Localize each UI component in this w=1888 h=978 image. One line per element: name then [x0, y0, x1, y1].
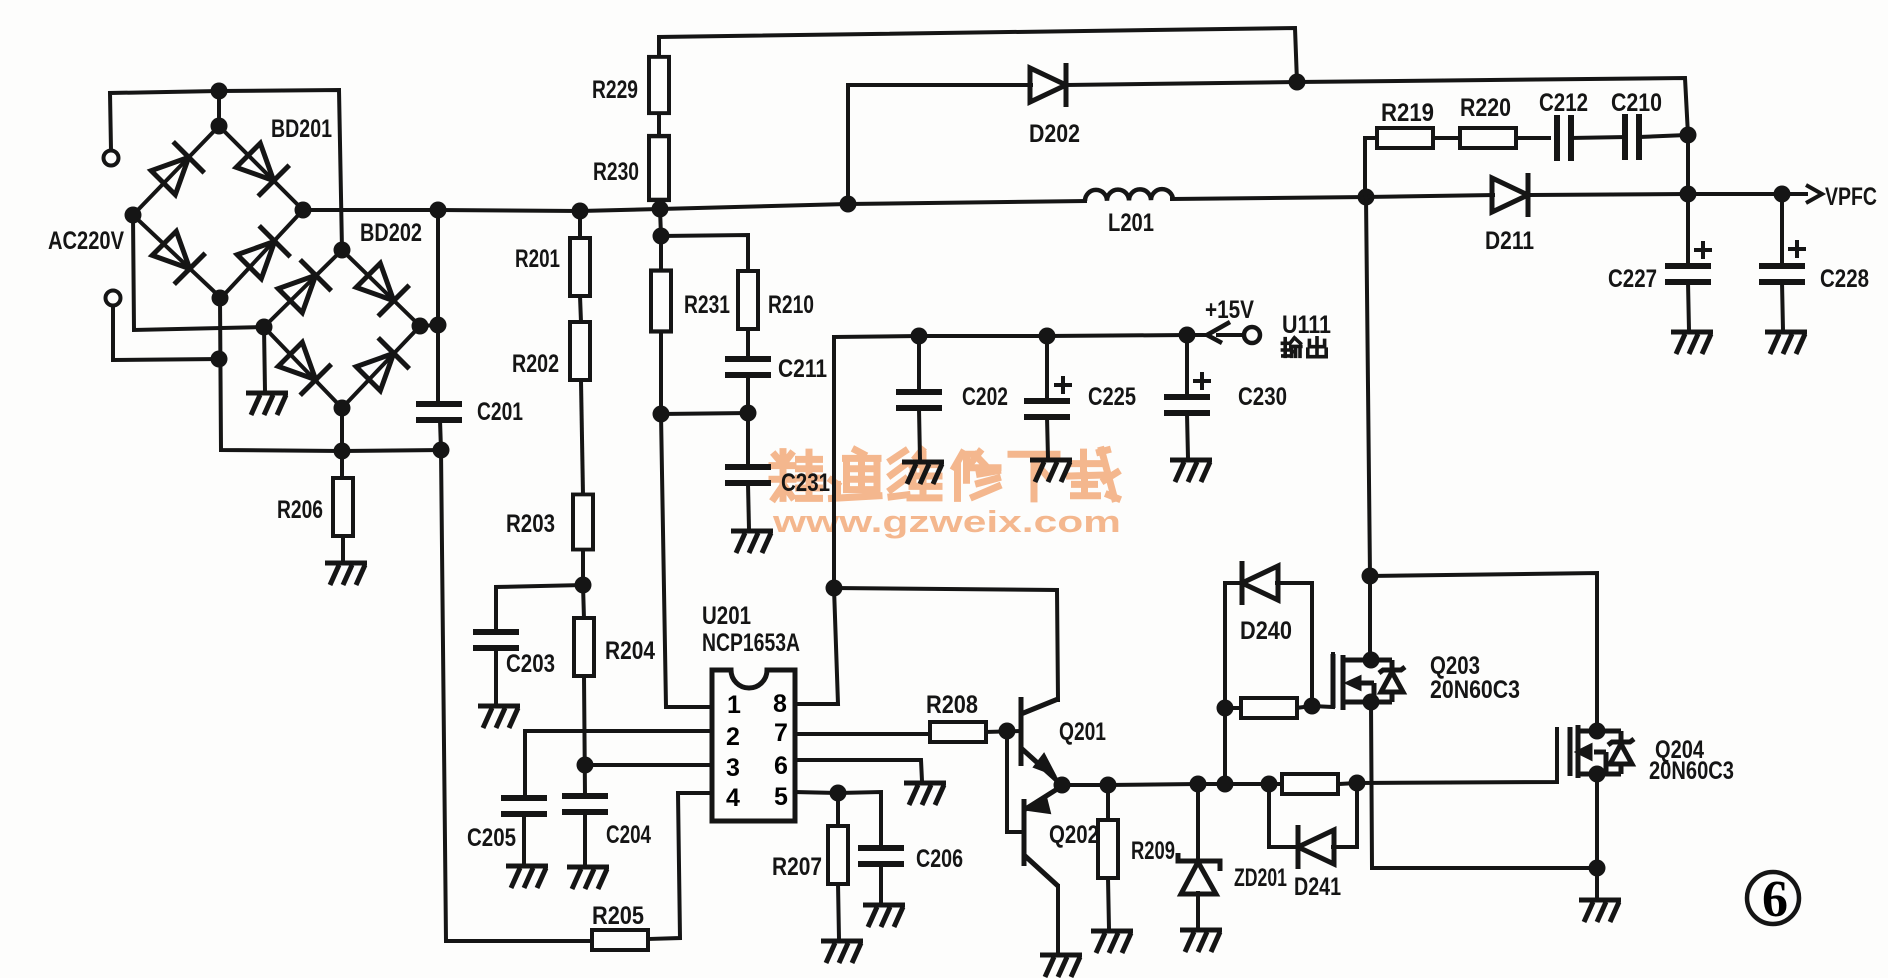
- polarity mark C225: [1054, 376, 1072, 394]
- wire corner node down to main line: [1686, 135, 1690, 194]
- node junction (438,325): [430, 317, 447, 334]
- svg-text:6: 6: [774, 752, 788, 780]
- wire R231/C211 junction link: [661, 413, 748, 414]
- wire +15V arrow to terminal: [1218, 333, 1243, 337]
- node junction (303,210): [295, 202, 312, 219]
- wire emitters node to gate bus: [1062, 784, 1281, 785]
- resistor R204: [574, 618, 594, 676]
- wire +15V node to Q201 collector: [834, 588, 1058, 700]
- label 输出: [1282, 338, 1326, 357]
- svg-text:D241: D241: [1294, 873, 1341, 901]
- wire +15V corner down to pin8 node: [832, 337, 836, 588]
- capacitor C228: [1759, 266, 1805, 282]
- AC input terminal 1: [104, 151, 119, 166]
- svg-text:L201: L201: [1108, 209, 1154, 237]
- capacitor C231: [725, 467, 771, 483]
- wire pin 6 to ground: [795, 760, 922, 781]
- node junction (1371,660): [1363, 652, 1380, 669]
- node junction (919,336): [911, 328, 928, 345]
- node junction (342,250): [334, 242, 351, 259]
- wire R229 top to D202 line: [659, 28, 1297, 82]
- svg-text:6: 6: [1762, 871, 1788, 928]
- resistor R207: [828, 826, 848, 884]
- wire R202-R203 link: [581, 381, 583, 495]
- wire AC2 to BD201 bottom: [113, 306, 219, 360]
- wire Q203 drain link to Q204 drain: [1370, 573, 1597, 731]
- polarity mark C230: [1193, 372, 1211, 390]
- svg-text:C231: C231: [781, 469, 830, 497]
- resistor gate Q203: [1241, 698, 1297, 718]
- node junction (438,210): [430, 202, 447, 219]
- wire long vertical to Q203 drain: [1366, 197, 1370, 659]
- resistor R220: [1460, 128, 1516, 148]
- wire C212-C210 link: [1571, 137, 1625, 138]
- wire C231 to ground: [748, 484, 749, 529]
- capacitor C204: [562, 796, 608, 812]
- ground ZD201: [1180, 930, 1222, 952]
- capacitor C203: [473, 632, 519, 648]
- svg-text:20N60C3: 20N60C3: [1430, 676, 1520, 704]
- wire pin 8 to +15V node: [795, 588, 838, 704]
- transistor Q202: [1024, 786, 1062, 886]
- wire R231 junction to U201 pin 1: [661, 414, 712, 707]
- wire C211 to junction: [746, 376, 750, 413]
- ground pin6: [904, 783, 946, 805]
- watermark: [772, 450, 1121, 539]
- resistor R203: [573, 494, 593, 549]
- svg-text:Q201: Q201: [1059, 718, 1106, 746]
- wire R203 to junction: [581, 550, 585, 585]
- svg-text:R220: R220: [1460, 94, 1511, 122]
- wire R231 top lead: [659, 236, 663, 271]
- node junction (1297,82): [1289, 74, 1306, 91]
- svg-text:www.gzweix.com: www.gzweix.com: [772, 504, 1121, 539]
- node junction (219,91): [211, 83, 228, 100]
- svg-text:C201: C201: [477, 398, 523, 426]
- wire R229-R230 link: [657, 112, 661, 136]
- node junction (1187,335): [1179, 327, 1196, 344]
- svg-text:R206: R206: [277, 496, 323, 524]
- svg-text:1: 1: [727, 691, 741, 719]
- wire bus L201 to output node: [1172, 197, 1366, 199]
- page number circle 6: [1747, 872, 1799, 924]
- svg-text:C211: C211: [778, 355, 827, 383]
- node junction (1366,197): [1358, 189, 1375, 206]
- node junction (220,298): [212, 290, 229, 307]
- node junction (1269,784): [1261, 776, 1278, 793]
- ground C204: [567, 867, 609, 889]
- wire R220-C212 link: [1516, 136, 1549, 140]
- node junction (219,359): [211, 351, 228, 368]
- wire AC1 to BD201 top and BD202 top: [110, 90, 342, 250]
- svg-text:C204: C204: [606, 821, 651, 849]
- wire R219 branch down to main line: [1363, 138, 1367, 197]
- wire gate resistor Q203 leads: [1225, 706, 1240, 710]
- svg-text:R205: R205: [592, 902, 644, 930]
- wire pin 5 junction: [795, 792, 881, 848]
- zener diode ZD201: [1178, 853, 1220, 894]
- svg-text:R210: R210: [768, 291, 814, 319]
- wire junction to R204: [583, 585, 584, 619]
- wire C202 top lead: [917, 336, 921, 391]
- wire R201 top lead: [578, 211, 582, 238]
- node dots upper-left: [125, 83, 450, 460]
- wire C230 top lead: [1185, 335, 1189, 396]
- wire C203 to ground: [494, 648, 498, 704]
- resistor R201: [570, 238, 590, 296]
- capacitor C210: [1625, 114, 1639, 160]
- node junction (1370,576): [1362, 568, 1379, 585]
- svg-text:7: 7: [774, 719, 788, 747]
- wire R210 to C211: [746, 330, 750, 358]
- svg-text:C230: C230: [1238, 383, 1287, 411]
- node junction (1225,784): [1217, 776, 1234, 793]
- wire Q204 source down: [1595, 774, 1599, 898]
- node junction (1688,194): [1680, 186, 1697, 203]
- ground C230: [1170, 460, 1212, 482]
- svg-text:BD201: BD201: [271, 115, 332, 143]
- ground C206: [863, 905, 905, 927]
- svg-text:D211: D211: [1485, 227, 1534, 255]
- svg-text:C212: C212: [1539, 89, 1588, 117]
- wire R230 to bus: [659, 201, 660, 209]
- ground C205: [506, 866, 548, 888]
- wire C204 to ground: [583, 813, 587, 865]
- wire R201-R202 link: [580, 296, 581, 322]
- wire C228 to ground: [1782, 282, 1783, 330]
- svg-text:Q202: Q202: [1049, 821, 1099, 849]
- svg-text:C203: C203: [506, 650, 555, 678]
- node junction (1357,783): [1349, 775, 1366, 792]
- node junction (342,408): [334, 400, 351, 417]
- wire R209 upper lead: [1106, 785, 1110, 820]
- wire D202 branch: [848, 85, 1031, 204]
- svg-text:R207: R207: [772, 853, 822, 881]
- node junction (585,765): [577, 757, 594, 774]
- svg-text:20N60C3: 20N60C3: [1649, 757, 1734, 785]
- VPFC output arrow: [1806, 185, 1822, 203]
- op-amp U201 NCP1653A body: [712, 670, 795, 821]
- wire C203 branch: [496, 585, 583, 632]
- wire R231 lower lead: [659, 332, 663, 414]
- node junction (1688,135): [1680, 127, 1697, 144]
- wire ZD201 upper lead: [1196, 784, 1200, 858]
- node junction (1225,708): [1217, 700, 1234, 717]
- wire C206 to ground: [879, 864, 883, 903]
- transistor Q203: [1333, 654, 1405, 710]
- svg-text:R219: R219: [1381, 99, 1434, 127]
- svg-text:R230: R230: [593, 158, 639, 186]
- svg-text:R204: R204: [605, 637, 655, 665]
- wire C225 to ground: [1047, 417, 1048, 458]
- diode D240: [1242, 561, 1278, 605]
- ground C228: [1765, 332, 1807, 354]
- wire pin 3 to R204 junction: [585, 763, 712, 767]
- wire C210 to corner node: [1639, 135, 1688, 137]
- capacitor C230: [1164, 397, 1210, 413]
- wire BD201 bottom vertical and bottom rail: [220, 298, 441, 451]
- wire bus to R231/R210: [660, 209, 748, 271]
- wire BD202 bottom stub: [340, 408, 344, 451]
- AC input terminal 2: [106, 291, 121, 306]
- wire ZD201 to ground: [1196, 893, 1200, 928]
- node junction (1062,785): [1054, 777, 1071, 794]
- node junction (1597,731): [1589, 723, 1606, 740]
- wire pin 4 to R205: [648, 793, 712, 939]
- svg-text:NCP1653A: NCP1653A: [702, 629, 800, 657]
- wire BD201 left to BD202 left: [133, 215, 264, 330]
- svg-text:R201: R201: [515, 245, 560, 273]
- polarity mark C228: [1788, 240, 1806, 258]
- ground BD202 left: [264, 327, 265, 391]
- node dots lower right: [1100, 568, 1606, 877]
- wire Q203 gate lead: [1312, 654, 1333, 707]
- diode D241: [1298, 825, 1334, 869]
- transistor Q201: [1021, 697, 1062, 785]
- svg-text:3: 3: [726, 754, 740, 782]
- wire pin 7 to R208: [795, 732, 931, 736]
- svg-text:BD202: BD202: [360, 219, 422, 247]
- node junction (1371,702): [1363, 694, 1380, 711]
- capacitor C211: [725, 359, 771, 375]
- ground C231: [731, 531, 773, 553]
- svg-text:C206: C206: [916, 845, 963, 873]
- wire C227 to ground: [1688, 282, 1689, 330]
- wire +15V rail: [834, 335, 1205, 337]
- svg-text:R209: R209: [1131, 837, 1175, 865]
- wire junction to C231: [746, 413, 750, 466]
- svg-text:R208: R208: [926, 691, 978, 719]
- svg-text:C227: C227: [1608, 265, 1657, 293]
- inductor L201: [1085, 189, 1173, 201]
- resistor R229: [649, 57, 669, 113]
- svg-text:R202: R202: [512, 350, 559, 378]
- +15V arrow: [1207, 322, 1230, 343]
- svg-text:C225: C225: [1088, 383, 1136, 411]
- bridge rectifier BD202: [264, 250, 420, 408]
- wire main line through D211: [1366, 195, 1493, 197]
- node junction (1108,785): [1100, 777, 1117, 794]
- node junction (1782,194): [1774, 186, 1791, 203]
- svg-text:R203: R203: [506, 510, 555, 538]
- node junction (264,327): [256, 319, 273, 336]
- node dots right: [911, 127, 1791, 345]
- wire D202 cathode to top right: [1067, 78, 1688, 135]
- wire R204 to C204/pin3 junction: [584, 676, 585, 795]
- wire R219-R220 link: [1432, 136, 1460, 140]
- resistor gate Q204: [1282, 774, 1338, 794]
- wire gate bus to Q204 gate: [1339, 729, 1557, 784]
- svg-text:4: 4: [726, 784, 740, 812]
- wire R209 to ground: [1108, 878, 1109, 929]
- node junction (342,451): [334, 443, 351, 460]
- resistor R230: [649, 136, 669, 200]
- wire BD201 top stub: [217, 91, 221, 126]
- capacitor C206: [858, 848, 904, 864]
- node dots driver: [826, 580, 1071, 802]
- svg-text:R231: R231: [684, 291, 730, 319]
- svg-text:U111: U111: [1282, 311, 1331, 339]
- bridge rectifier BD201: [133, 126, 303, 298]
- svg-text:2: 2: [726, 723, 740, 751]
- svg-text:C228: C228: [1820, 265, 1869, 293]
- node junction (848,204): [840, 196, 857, 213]
- resistor R219: [1377, 128, 1433, 148]
- wire R207 to ground: [838, 883, 839, 939]
- node junction (661,414): [653, 406, 670, 423]
- node junction (1597,868): [1589, 860, 1606, 877]
- svg-text:AC220V: AC220V: [48, 227, 124, 255]
- capacitor C201: [416, 404, 462, 420]
- ground Q204 source: [1579, 900, 1621, 922]
- node junction (1047,336): [1039, 328, 1056, 345]
- wire D240 loop: [1225, 583, 1243, 784]
- wire R207 upper lead: [836, 793, 840, 827]
- polarity mark C227: [1694, 241, 1712, 259]
- node junction (660,209): [652, 201, 669, 218]
- node junction (420,326): [412, 318, 429, 335]
- ground R207: [821, 941, 863, 963]
- resistor R209: [1098, 820, 1118, 878]
- svg-text:C210: C210: [1611, 89, 1662, 117]
- svg-text:+15V: +15V: [1205, 296, 1254, 324]
- capacitor C205: [501, 798, 547, 814]
- resistor R206: [340, 451, 344, 479]
- svg-text:VPFC: VPFC: [1825, 183, 1877, 211]
- svg-text:R229: R229: [592, 76, 638, 104]
- ground C202: [902, 462, 944, 484]
- ground C203: [478, 706, 520, 728]
- svg-text:C205: C205: [467, 824, 516, 852]
- node junction (661,236): [653, 228, 670, 245]
- wire R208 to Q201 base: [986, 731, 1020, 732]
- wire R219 left lead: [1365, 136, 1378, 140]
- node junction (441,450): [433, 442, 450, 459]
- node junction (1007,731): [999, 723, 1016, 740]
- svg-text:8: 8: [773, 690, 787, 718]
- wire main bus from BD201 right: [303, 201, 1085, 211]
- node junction (1198,784): [1190, 776, 1207, 793]
- svg-text:D202: D202: [1029, 120, 1080, 148]
- wire Q201 base to Q202 base: [1007, 731, 1023, 832]
- resistor R231: [651, 271, 671, 332]
- ground R209: [1091, 931, 1133, 953]
- ground Q202: [1040, 955, 1082, 977]
- wire C205 to ground: [522, 814, 526, 864]
- node junction (583,585): [575, 577, 592, 594]
- node junction (838,793): [830, 785, 847, 802]
- ground C225: [1030, 460, 1072, 482]
- node junction (1597,774): [1589, 766, 1606, 783]
- resistor R205: [592, 930, 648, 950]
- resistor R202: [570, 322, 590, 380]
- diode D202: [1030, 63, 1066, 107]
- wire D241 loop: [1269, 784, 1299, 847]
- +15V terminal circle: [1244, 327, 1260, 343]
- wire pin 2 to C205: [525, 731, 712, 798]
- svg-text:C202: C202: [962, 383, 1008, 411]
- svg-text:D240: D240: [1240, 617, 1292, 645]
- capacitor C202: [896, 392, 942, 408]
- diode D211: [1492, 173, 1528, 217]
- ground R206: [325, 563, 367, 585]
- capacitor C227: [1665, 266, 1711, 282]
- wire C227 top lead: [1686, 194, 1690, 266]
- svg-text:ZD201: ZD201: [1234, 864, 1287, 892]
- transistor Q204: [1570, 725, 1634, 778]
- wire C228 top lead: [1780, 194, 1784, 266]
- wire Q202 collector to ground: [1056, 886, 1060, 952]
- node junction (834,588): [826, 580, 843, 597]
- capacitor C212: [1557, 115, 1571, 161]
- svg-text:5: 5: [774, 783, 788, 811]
- wire Q203 source to Q204 source node: [1371, 702, 1597, 868]
- wire C201 column: [436, 210, 440, 404]
- node junction (580,211): [572, 203, 589, 220]
- node junction (748,413): [740, 405, 757, 422]
- resistor R210: [738, 271, 758, 329]
- node dots middle-top: [572, 74, 1375, 774]
- wire C230 to ground: [1187, 414, 1188, 458]
- wire C225 top lead: [1045, 336, 1049, 401]
- ground C227: [1671, 332, 1713, 354]
- wire C202 to ground: [919, 409, 920, 460]
- node junction (1312,706): [1304, 698, 1321, 715]
- resistor R208: [930, 722, 986, 742]
- capacitor C225: [1024, 401, 1070, 417]
- node junction (219,126): [211, 118, 228, 135]
- node junction (133,215): [125, 207, 142, 224]
- svg-text:U201: U201: [702, 602, 751, 630]
- wire BD202 right stub: [420, 325, 438, 326]
